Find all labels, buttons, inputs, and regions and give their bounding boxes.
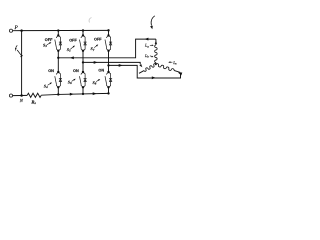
label S3 [43, 42, 51, 48]
node leg B midpoint [82, 61, 84, 63]
label Lc [168, 60, 177, 66]
faint mark (scan bleed-through) [89, 18, 91, 23]
current arrow on phase C wire (pointing right) [119, 64, 123, 67]
label S7 [91, 44, 99, 51]
resistor Rs [27, 93, 41, 97]
winding Lc (to lower right) [155, 63, 180, 72]
svg-text:S3: S3 [43, 43, 47, 49]
svg-text:Rs: Rs [31, 100, 36, 106]
svg-text:S7: S7 [91, 46, 95, 52]
svg-text:S4: S4 [44, 83, 48, 89]
node P junction [20, 29, 23, 32]
svg-text:ON: ON [73, 69, 79, 73]
svg-text:S6: S6 [68, 80, 72, 86]
switch S1 (left branch) [15, 45, 23, 57]
terminal N (supply -) [9, 94, 21, 97]
current arrow on phase C bottom run (pointing right) [152, 76, 156, 79]
switch S6 with freewheel diode (bottom, ON) [80, 62, 87, 94]
node leg A midpoint [57, 57, 59, 59]
wire resistor to bottom rail [41, 93, 58, 96]
node N junction [20, 94, 23, 97]
label S4 [44, 82, 52, 89]
junction leg A bottom [57, 93, 59, 95]
switch S5 with freewheel diode (top, OFF) [80, 30, 87, 62]
junction leg A top [57, 29, 59, 31]
svg-text:S5: S5 [67, 47, 71, 53]
svg-text:La: La [144, 43, 149, 49]
switch S4 with freewheel diode (bottom, ON) [55, 58, 62, 95]
wire phase A (leg A to winding La top) [58, 39, 156, 58]
wire phase B (leg B toward winding Lb) [83, 62, 140, 64]
node motor star point [155, 64, 157, 66]
svg-text:OFF: OFF [94, 37, 102, 41]
label La [144, 43, 154, 49]
junction leg B top [82, 29, 84, 31]
current arrow on winding La (pointing up) [155, 41, 157, 44]
wire bottom rail [58, 93, 108, 94]
label S6 [68, 79, 76, 85]
label Lb [144, 53, 154, 59]
svg-text:ON: ON [98, 69, 104, 73]
junction leg C top [107, 29, 109, 31]
current arrow on phase A wire (pointing left) [70, 56, 74, 59]
switch S3 with freewheel diode (top, OFF) [55, 31, 62, 58]
winding Lb (to lower left) [139, 63, 157, 73]
annotation rotation arrow (top right) [150, 16, 155, 29]
svg-text:S8: S8 [93, 80, 97, 86]
label S8 [93, 79, 101, 86]
svg-text:OFF: OFF [69, 39, 77, 43]
svg-text:P: P [14, 25, 19, 31]
junction leg B bottom [82, 93, 84, 95]
switch S8 with freewheel diode (bottom, ON) [105, 65, 112, 93]
current arrow into winding Lc (up-left) [178, 73, 182, 76]
wire phase C (leg C, down and along bottom to winding Lc) [109, 65, 181, 78]
winding La (vertical) [155, 39, 157, 64]
svg-text:OFF: OFF [45, 38, 53, 42]
current arrow on phase B wire (pointing right) [94, 61, 98, 64]
svg-text:Lb: Lb [144, 53, 149, 59]
terminal P (supply +) [9, 29, 21, 32]
wire top rail [22, 29, 109, 31]
node leg C midpoint [107, 64, 109, 66]
switch S7 with freewheel diode (top, OFF) [105, 30, 112, 65]
current arrow on bottom rail (A-B) [70, 93, 74, 96]
svg-text:ON: ON [48, 69, 54, 73]
svg-text:Lc: Lc [172, 60, 177, 66]
label S5 [67, 46, 75, 53]
current arrow on phase A top run (pointing left) [144, 38, 148, 41]
junction leg C bottom [107, 92, 109, 94]
wire N to resistor [22, 94, 28, 96]
wire left branch vertical [21, 31, 23, 96]
current arrow into winding Lb (down-right) [139, 64, 142, 67]
current arrow on bottom rail (B-C) [93, 92, 97, 95]
